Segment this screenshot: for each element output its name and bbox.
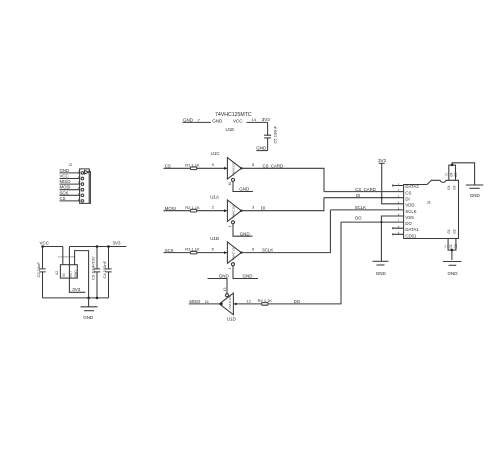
junction at U1A output xyxy=(240,210,242,212)
svg-text:G4: G4 xyxy=(450,172,454,176)
wire SCLK to J1 pin5 xyxy=(330,205,403,210)
wire J2 pin5 SCK xyxy=(60,190,80,195)
svg-text:4: 4 xyxy=(228,267,232,269)
svg-text:MOSI: MOSI xyxy=(60,185,71,190)
wire VCC to regulator IN xyxy=(62,247,64,265)
svg-text:3V3: 3V3 xyxy=(72,287,81,292)
3V3 rail xyxy=(69,240,126,246)
svg-text:G3: G3 xyxy=(453,185,457,189)
svg-text:GND: GND xyxy=(376,271,387,276)
J1 pin stub 8 xyxy=(393,227,404,229)
svg-text:SCLK: SCLK xyxy=(355,205,366,210)
J2 pin numbers xyxy=(78,169,80,201)
wire J2 pin6 CS xyxy=(60,196,80,201)
svg-text:10: 10 xyxy=(228,182,232,186)
regulator U2 body xyxy=(60,265,77,278)
svg-text:R4 1.1K: R4 1.1K xyxy=(258,298,273,303)
U1C enable pin 10 xyxy=(228,181,253,191)
svg-text:DO: DO xyxy=(294,299,301,304)
wire 3V3 down to C5 xyxy=(267,122,269,135)
junction at U1D input xyxy=(235,303,237,305)
svg-text:MOSI: MOSI xyxy=(165,206,176,211)
svg-text:G1: G1 xyxy=(447,229,451,233)
svg-text:74VHC125: 74VHC125 xyxy=(231,246,235,260)
svg-text:3V3: 3V3 xyxy=(262,117,271,122)
svg-text:G4: G4 xyxy=(447,185,451,189)
capacitor C4 xyxy=(102,247,112,298)
3V3 net label at regulator output xyxy=(72,287,81,292)
junction at U1C output xyxy=(240,167,242,169)
connector J2 body xyxy=(80,169,91,204)
svg-text:C3 10uF/10V: C3 10uF/10V xyxy=(90,256,95,280)
wire U1C output CS_CARD xyxy=(241,162,324,191)
U1A enable bubble xyxy=(232,221,235,224)
junction at U1C input xyxy=(224,167,227,170)
wire J2 pin2 VCC xyxy=(60,174,80,179)
svg-text:SCK: SCK xyxy=(165,248,174,253)
buffer U1A designator xyxy=(210,194,219,199)
svg-text:CS: CS xyxy=(165,164,171,169)
capacitor C2 xyxy=(36,247,46,298)
wire SCK input xyxy=(164,247,228,253)
svg-text:CS: CS xyxy=(405,190,411,195)
GND net label on U1B enable xyxy=(243,274,254,279)
junction at U1A input xyxy=(224,209,227,212)
svg-text:CS: CS xyxy=(60,196,66,201)
J1 pin stub 9 xyxy=(393,233,404,235)
ground symbol bottom right xyxy=(443,262,461,277)
buffer U1C triangle xyxy=(227,158,241,179)
svg-text:GND: GND xyxy=(83,315,94,320)
wire DI to J1 pin3 xyxy=(324,193,404,198)
J1 G4 G3 pin names inside body xyxy=(447,185,456,189)
regulator U2 designator xyxy=(55,271,59,275)
svg-text:DI: DI xyxy=(405,197,409,202)
svg-text:U1B: U1B xyxy=(210,236,219,241)
svg-text:G3: G3 xyxy=(454,172,458,176)
svg-text:C5 100nF: C5 100nF xyxy=(273,125,278,143)
junctions on ground rail xyxy=(87,297,98,300)
svg-text:GND: GND xyxy=(219,274,230,279)
resistor R1 xyxy=(185,162,200,169)
svg-text:VCC: VCC xyxy=(60,174,69,179)
J1 pin name CD01 xyxy=(405,233,417,238)
wire shield top to ground xyxy=(452,163,475,185)
svg-text:R1 1.1K: R1 1.1K xyxy=(185,162,200,167)
svg-text:SCLK: SCLK xyxy=(262,248,273,253)
resistor R2 xyxy=(185,205,200,212)
svg-text:R3 1.1K: R3 1.1K xyxy=(185,247,200,252)
svg-text:U1E: U1E xyxy=(226,127,235,132)
svg-text:DI: DI xyxy=(261,206,265,211)
svg-text:R2 1.1K: R2 1.1K xyxy=(185,205,200,210)
U1D enable bubble xyxy=(226,294,229,297)
wire U1D input DO xyxy=(233,222,341,304)
U1A enable pin 1 xyxy=(228,224,252,236)
J1 shield pins G3 G4 top box xyxy=(446,165,459,180)
svg-text:GND: GND xyxy=(470,193,481,198)
svg-text:DO: DO xyxy=(405,221,412,226)
U1E power gate designator xyxy=(226,127,235,132)
junction at U1D output apex xyxy=(219,302,222,305)
wire MOSI input xyxy=(164,205,228,211)
J1 pin name SCLK xyxy=(405,209,416,214)
resistor R4 xyxy=(258,298,273,305)
wire J2 pin1 GND xyxy=(60,168,80,173)
wire regulator GND pin xyxy=(75,251,89,298)
svg-text:C2 10uF: C2 10uF xyxy=(36,262,41,278)
svg-text:CD01: CD01 xyxy=(405,233,417,238)
GND net label on U1A enable xyxy=(240,231,251,236)
J1 pin name VDD xyxy=(405,203,414,208)
IC U1 part value 74VHC125MTC xyxy=(215,112,252,118)
connector J2 pin bubbles xyxy=(81,172,84,203)
svg-text:MISO: MISO xyxy=(189,299,201,304)
svg-text:GND: GND xyxy=(256,145,267,150)
svg-text:VCC: VCC xyxy=(40,240,50,245)
wire U1A output DI xyxy=(241,198,324,211)
svg-text:GND: GND xyxy=(448,271,459,276)
svg-text:13: 13 xyxy=(223,287,227,291)
J1 G1 G2 pin names inside body xyxy=(447,229,456,233)
svg-text:DO: DO xyxy=(355,216,362,221)
wire U1B output SCLK xyxy=(241,210,330,253)
wire J2 pin4 MOSI xyxy=(60,185,80,190)
wire shield bottom to ground xyxy=(451,250,453,260)
svg-text:U1D: U1D xyxy=(227,316,237,321)
svg-text:C4 100nF: C4 100nF xyxy=(102,260,107,278)
wire CS input xyxy=(164,162,228,168)
GND net label on U1C enable xyxy=(239,187,250,192)
svg-text:GND: GND xyxy=(212,118,223,123)
svg-text:1: 1 xyxy=(228,225,232,227)
svg-text:U1C: U1C xyxy=(211,151,221,156)
junctions on 3V3 rail xyxy=(96,245,110,248)
buffer U1C designator xyxy=(211,151,221,156)
J1 pin stub 1 xyxy=(393,184,404,186)
J1 pin name VSS xyxy=(405,215,414,220)
svg-text:SCK: SCK xyxy=(60,190,69,195)
svg-text:U2: U2 xyxy=(55,271,59,275)
svg-text:GND: GND xyxy=(74,270,78,278)
wire DO to J1 pin7 xyxy=(341,216,404,223)
svg-text:74VHC125: 74VHC125 xyxy=(231,162,235,176)
svg-text:VSS: VSS xyxy=(405,215,414,220)
wire VCC pin 14 to 3V3 xyxy=(247,117,271,123)
svg-text:XC6206P332MR: XC6206P332MR xyxy=(58,256,75,258)
wire CS_CARD to J1 pin2 xyxy=(324,187,404,192)
buffer U1D triangle (faces left) xyxy=(219,293,233,315)
J1 pin name DI xyxy=(405,197,409,202)
J1 designator xyxy=(427,199,432,204)
3V3 power symbol xyxy=(378,158,387,163)
svg-text:74VHC125: 74VHC125 xyxy=(231,205,235,219)
junction blob at DO crossing xyxy=(380,221,382,223)
J1 shield pins G1 G2 bottom box xyxy=(445,239,458,251)
svg-text:CS_CARD: CS_CARD xyxy=(263,163,284,168)
wire MISO output pin 11 xyxy=(189,299,220,304)
svg-text:12: 12 xyxy=(246,298,251,303)
svg-text:J2: J2 xyxy=(69,163,73,167)
C5 value label xyxy=(273,125,278,143)
resistor R3 xyxy=(185,247,200,254)
svg-text:DATA1: DATA1 xyxy=(405,227,419,232)
U1 GND pin name xyxy=(212,118,223,123)
svg-text:CS_CARD: CS_CARD xyxy=(355,187,376,192)
buffer U1B designator xyxy=(210,236,219,241)
svg-text:G1: G1 xyxy=(449,244,453,248)
buffer U1B triangle xyxy=(227,242,241,263)
J1 pin name CS xyxy=(405,190,411,195)
J1 pin name DATA1 xyxy=(405,227,419,232)
svg-text:3V3: 3V3 xyxy=(113,240,122,245)
J1 pin numbers 1-9 xyxy=(398,182,400,235)
svg-text:MISO: MISO xyxy=(60,179,72,184)
J1 pin name DATA2 xyxy=(405,184,419,189)
svg-text:GND: GND xyxy=(183,118,194,123)
junction at VCC xyxy=(41,245,44,248)
VCC net label xyxy=(40,240,63,246)
svg-text:74VHC125MTC: 74VHC125MTC xyxy=(215,112,252,118)
svg-text:GND: GND xyxy=(240,231,251,236)
connector J2 designator xyxy=(69,163,73,167)
svg-text:GND: GND xyxy=(60,168,70,173)
svg-text:3V3: 3V3 xyxy=(378,158,387,163)
wire J2 pin3 MISO xyxy=(60,179,80,184)
ground symbol top right xyxy=(466,185,484,198)
svg-text:DATA2: DATA2 xyxy=(405,184,419,189)
wire regulator OUT xyxy=(69,247,85,293)
buffer U1A triangle xyxy=(227,200,241,221)
svg-text:74VHC125: 74VHC125 xyxy=(228,295,232,309)
wire 3V3 to J1 VDD pin4 xyxy=(382,163,404,204)
svg-text:SCLK: SCLK xyxy=(405,209,416,214)
buffer U1D designator xyxy=(227,316,237,321)
wire J1 VSS pin6 to ground xyxy=(381,216,403,261)
GND net label on U1D enable xyxy=(219,274,230,279)
svg-text:U1A: U1A xyxy=(210,194,219,199)
svg-text:VDD: VDD xyxy=(405,203,414,208)
svg-text:DI: DI xyxy=(356,193,360,198)
svg-text:VCC: VCC xyxy=(233,118,243,123)
ground symbol under VSS xyxy=(373,261,389,276)
junction blob at DI crossing xyxy=(381,197,383,199)
svg-text:G2: G2 xyxy=(453,229,457,233)
U1 VCC pin name xyxy=(233,118,243,123)
capacitor C5 xyxy=(264,135,271,150)
U1D enable pin 13 xyxy=(208,279,228,294)
svg-text:14: 14 xyxy=(252,117,257,122)
J1 pin name DO xyxy=(405,221,412,226)
junction at U1B input xyxy=(224,251,227,254)
ground rail xyxy=(43,297,109,299)
ground symbol regulator xyxy=(81,298,98,320)
junction at shield top xyxy=(451,164,454,167)
regulator part number xyxy=(58,256,75,258)
junction at U1B output xyxy=(240,251,242,253)
capacitor C3 xyxy=(90,247,100,298)
SD card connector J1 body xyxy=(404,180,459,238)
junction at shield bottom xyxy=(451,249,454,252)
U1B enable bubble xyxy=(232,263,235,266)
wire GND pin 7 of U1 xyxy=(183,118,212,123)
svg-text:GND: GND xyxy=(239,187,250,192)
U1B enable pin 4 xyxy=(228,266,258,279)
svg-text:GND: GND xyxy=(243,274,254,279)
svg-text:G2: G2 xyxy=(454,244,458,248)
U1C enable bubble xyxy=(232,178,235,181)
GND net label under C5 xyxy=(256,145,267,150)
